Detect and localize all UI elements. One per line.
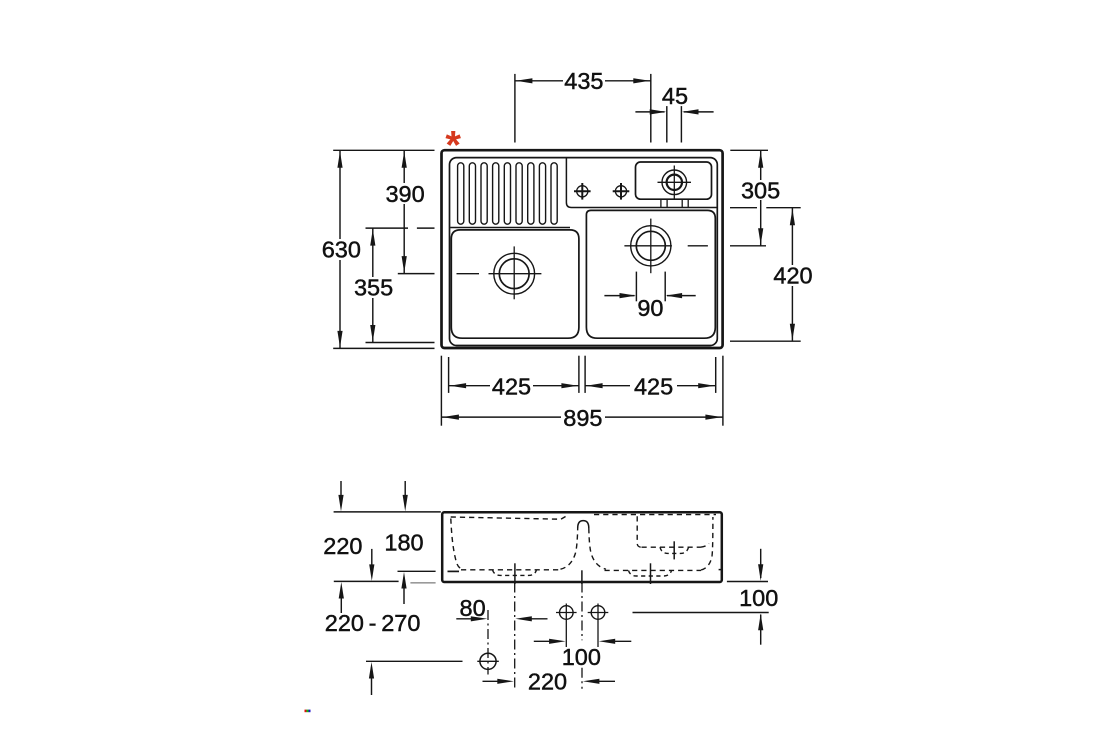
faucet hole centerlines xyxy=(658,166,692,200)
svg-text:895: 895 xyxy=(563,405,602,431)
label 220 - 270 xyxy=(325,610,421,636)
label 305 xyxy=(741,177,780,203)
svg-text:*: * xyxy=(445,124,461,168)
svg-text:425: 425 xyxy=(492,374,531,400)
dimension 45 xyxy=(635,109,713,114)
left bowl drain xyxy=(494,253,535,294)
dimension 390 xyxy=(402,150,407,273)
ext line bowlR-right-bottom xyxy=(715,357,717,393)
svg-text:425: 425 xyxy=(634,374,673,400)
right bowl drain xyxy=(631,226,671,266)
ext line bowl-bottom-left xyxy=(366,342,435,344)
hidden rim edge right xyxy=(594,514,716,516)
dimension 630 xyxy=(337,150,342,348)
centerline left drain xyxy=(514,583,516,688)
deck screw mark left xyxy=(574,183,591,200)
hidden faucet ledge left edge xyxy=(637,516,641,547)
arrow to fixing-hole level xyxy=(369,662,374,695)
svg-text:390: 390 xyxy=(385,181,424,207)
dimension 100 center xyxy=(534,639,632,644)
hidden right bowl bottom xyxy=(605,569,702,571)
svg-text:90: 90 xyxy=(637,295,663,321)
sink outer rim (plan view) xyxy=(442,150,723,348)
dimension 90 xyxy=(604,293,695,298)
hidden divider crest xyxy=(578,521,589,528)
label 435 xyxy=(564,68,603,94)
hidden left bowl left wall xyxy=(451,519,463,570)
label 420 xyxy=(773,263,812,289)
dimension 305 xyxy=(758,150,763,246)
hidden left bowl bottom xyxy=(461,569,561,571)
svg-text:420: 420 xyxy=(773,263,812,289)
arrow to bowl floor xyxy=(401,572,406,604)
label 100 center xyxy=(562,644,601,670)
divider tick xyxy=(581,570,583,584)
hidden faucet hole sump xyxy=(660,547,689,553)
svg-text:355: 355 xyxy=(354,275,393,301)
faucet hole tick xyxy=(673,541,675,559)
ext line drain-left xyxy=(514,74,516,143)
ext line body-bottom-grey xyxy=(410,582,435,584)
svg-text:220: 220 xyxy=(528,668,567,694)
dimension 895 xyxy=(441,415,723,420)
arrow to body bottom mid xyxy=(369,549,374,581)
drainer bottom edge xyxy=(450,227,570,229)
hidden divider left flank xyxy=(561,528,578,569)
ext line fixing-hole-level xyxy=(366,660,463,662)
right bowl xyxy=(586,210,715,338)
svg-text:100: 100 xyxy=(739,585,778,611)
mounting hole left xyxy=(556,604,577,648)
label 425 left xyxy=(492,374,531,400)
centerline divider xyxy=(581,583,583,689)
hidden left drain sump xyxy=(493,570,537,576)
label 80 xyxy=(460,595,486,621)
label 425 right xyxy=(634,374,673,400)
arrow to body top 2 xyxy=(403,481,408,511)
dimension 100 right xyxy=(758,549,763,645)
ext line sink-right-bottom xyxy=(722,356,724,426)
ext line bottom-left xyxy=(333,347,434,349)
right drain tick xyxy=(650,563,652,584)
hidden divider right flank xyxy=(589,528,606,569)
arrow to body bottom low xyxy=(339,582,344,613)
sink inner rim (plan view) xyxy=(450,158,718,346)
svg-text:45: 45 xyxy=(662,83,688,109)
label 45 xyxy=(662,83,688,109)
ext line bowl-top-left xyxy=(366,227,435,229)
dimension 420 xyxy=(790,208,795,342)
dimension 80 xyxy=(456,616,547,621)
ext line drain-right xyxy=(650,74,652,143)
asterisk footnote mark xyxy=(445,124,461,168)
svg-text:80: 80 xyxy=(460,595,486,621)
ext line top-left xyxy=(333,149,434,151)
ext line body-bottom-right xyxy=(727,581,768,583)
label 355 xyxy=(354,275,393,301)
faucet hole xyxy=(662,170,687,195)
label 220 bottom xyxy=(528,668,567,694)
hidden right bowl right wall xyxy=(701,517,713,570)
mounting hole right xyxy=(588,604,609,648)
arrow to body top 1 xyxy=(338,481,343,511)
svg-text:305: 305 xyxy=(741,177,780,203)
hidden right drain sump xyxy=(629,570,672,576)
svg-text:220: 220 xyxy=(323,533,362,559)
label 90 xyxy=(637,295,663,321)
left bowl xyxy=(451,230,579,338)
ext line holes-level-right xyxy=(633,612,769,614)
ext line bowlL-left-bottom xyxy=(448,357,450,393)
sink body (front view) xyxy=(442,512,722,582)
dimension 355 xyxy=(370,228,375,342)
faucet ledge right leg xyxy=(682,199,688,207)
svg-text:220 - 270: 220 - 270 xyxy=(325,610,421,636)
label 630 xyxy=(322,237,361,263)
ext line sink-left-bottom xyxy=(440,356,442,426)
ext line body-bottom-left xyxy=(334,580,399,582)
dimension 425 right xyxy=(585,383,716,388)
label 895 xyxy=(563,405,602,431)
hidden faucet ledge underside xyxy=(642,544,710,548)
svg-text:100: 100 xyxy=(562,644,601,670)
svg-text:435: 435 xyxy=(564,68,603,94)
rgb watermark dots xyxy=(305,710,311,713)
dimension 425 left xyxy=(449,383,579,388)
label 390 xyxy=(385,181,424,207)
svg-text:630: 630 xyxy=(322,237,361,263)
right drain centerlines xyxy=(624,219,708,274)
ext line bowl-floor-left xyxy=(398,570,436,572)
bowl floor mark right xyxy=(719,569,723,571)
fixing hole xyxy=(477,653,499,669)
left drain tick xyxy=(514,563,516,584)
label 220 left xyxy=(323,533,362,559)
faucet ledge box xyxy=(636,162,712,199)
dimension 435 xyxy=(515,78,651,83)
label 180 xyxy=(384,529,423,555)
svg-text:180: 180 xyxy=(384,529,423,555)
faucet ledge left leg xyxy=(661,199,667,207)
bowl floor mark left xyxy=(448,570,460,572)
ext line bowlL-right-bottom xyxy=(578,356,580,393)
drainer right edge and faucet-deck bottom edge xyxy=(566,158,716,207)
left drain centerlines xyxy=(457,246,542,299)
hidden rim edge left xyxy=(451,515,569,520)
deck screw mark right xyxy=(613,183,630,200)
ext lines faucet hole xyxy=(667,106,682,142)
ext line drain-center-left xyxy=(398,273,435,275)
ext line body-top-left xyxy=(334,511,441,513)
dimension 220 bottom xyxy=(483,679,616,684)
ext line top-right xyxy=(730,149,768,151)
drainer ribs xyxy=(458,163,558,224)
ext line bowl-bottom-right xyxy=(730,340,801,342)
ext ticks drain 90 xyxy=(636,272,665,302)
label 100 right xyxy=(739,585,778,611)
ext line bowlR-left-bottom xyxy=(584,356,586,393)
ext line deck-right xyxy=(730,207,801,209)
ext line drain-center-right xyxy=(730,245,766,247)
centerline fixing hole xyxy=(487,610,489,675)
